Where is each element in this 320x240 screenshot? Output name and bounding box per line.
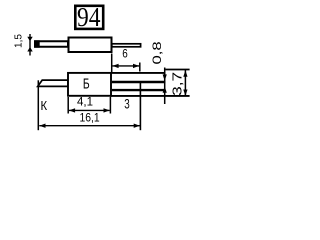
4,1 extension lines [67,97,69,114]
svg-text:1,5: 1,5 [13,34,24,48]
svg-text:К: К [41,98,48,113]
svg-text:4,1: 4,1 [77,94,93,108]
dimension 6 extension lines [111,54,113,73]
svg-text:16,1: 16,1 [80,110,100,124]
dimension 1,5 leader line [29,34,31,56]
transistor top view: package body [69,38,112,53]
shared vertical: 0,8 dim + lead ends + 16,1 extension [164,68,166,105]
dimension 6 line [112,65,139,67]
transistor top view: right lead wire [112,44,141,47]
16,1 left extension [37,80,39,130]
transistor side view: flattened collector lead [38,80,68,86]
transistor side view: right lead wires [110,72,165,74]
svg-text:6: 6 [122,47,128,61]
transistor top view: left lead wire [35,41,68,47]
svg-text:94: 94 [77,2,101,32]
dimension 1,5 arrows [27,37,32,42]
svg-text:0,8: 0,8 [150,41,164,64]
3,7 top extension [165,69,189,71]
svg-text:3,7: 3,7 [171,72,185,96]
short vertical at lead gap [139,81,141,130]
0,8 arrows [163,74,167,81]
4,1 dimension line [69,109,110,111]
3,7 dimension line [184,70,186,96]
svg-text:З: З [124,96,130,112]
figure number box 94 [75,6,103,29]
16,1 dimension line [39,125,140,127]
svg-text:Б: Б [83,76,90,93]
transistor side view: package body [68,73,111,96]
